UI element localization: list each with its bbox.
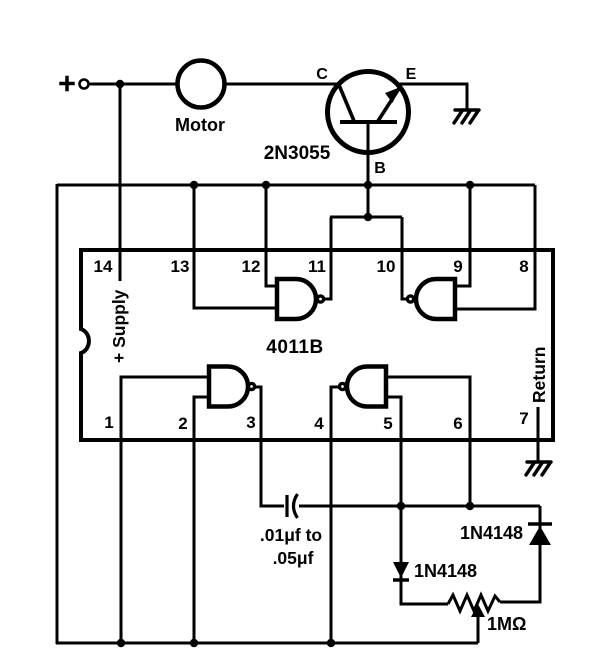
svg-text:4: 4 [314,414,324,433]
svg-text:11: 11 [308,257,326,276]
svg-text:1N4148: 1N4148 [414,561,477,581]
junction pin6 node [466,502,474,510]
terminal open circle [80,80,89,89]
junction pin13 bus [190,181,198,189]
svg-text:2N3055: 2N3055 [264,143,331,164]
wire pin 4 [331,387,339,643]
wire pin 12 [266,185,277,286]
transistor Q1 2N3055 [328,72,409,153]
wire B crossbar [330,216,402,219]
diode D1 1N4148 (left, pointing down) [393,562,409,580]
junction supply tap [116,80,124,88]
IC U1 4011B body [81,250,553,440]
svg-text:9: 9 [453,257,462,276]
wire pin 10 [402,217,407,299]
wire pin 7 stub [537,407,540,462]
junction base on bus [364,181,372,189]
junction pin9 bus [466,181,474,189]
svg-text:C: C [316,66,328,83]
svg-text:.01μf to: .01μf to [260,525,322,545]
svg-text:+ Supply: + Supply [109,289,129,363]
svg-text:Motor: Motor [175,115,225,135]
svg-text:3: 3 [246,413,255,432]
svg-text:1: 1 [104,413,113,432]
svg-text:1MΩ: 1MΩ [487,614,526,634]
wire pin 6 [386,377,470,506]
svg-text:13: 13 [171,257,190,276]
diode D2 1N4148 (right, pointing up) [528,524,552,545]
wire emitter to ground [398,84,467,110]
wire wiper to bottom bus [477,616,480,643]
nand gate U1c bottom-left [209,367,255,407]
svg-text:4011B: 4011B [266,337,323,358]
wire terminal to motor [88,83,178,86]
wire pin 11 [324,217,331,299]
junction pin4 bottom [327,639,335,647]
svg-text:Return: Return [529,347,549,403]
svg-text:10: 10 [377,257,396,276]
junction pin5 node [397,502,405,510]
svg-text:14: 14 [94,257,113,276]
wire pin 5 down through diode [386,397,448,604]
wire motor to collector [224,83,340,86]
+ supply terminal [61,78,73,90]
nand gate U1b top-right [407,279,455,319]
svg-text:B: B [374,160,386,177]
wire pin 9 [455,185,470,286]
svg-text:7: 7 [519,409,528,428]
wire left rail [56,184,59,644]
svg-text:.05μf: .05μf [273,548,314,568]
svg-text:1N4148: 1N4148 [460,523,523,543]
junction pin12 bus [262,181,270,189]
svg-text:2: 2 [178,414,187,433]
svg-text:E: E [406,66,417,83]
wiper arrow [471,604,485,617]
resistor R1 1M potentiometer [448,595,500,611]
svg-text:8: 8 [519,257,528,276]
svg-text:5: 5 [383,414,392,433]
motor M1 [178,61,225,108]
wire pin 3 to capacitor [255,387,284,506]
wire right branch down [500,506,540,602]
capacitor C1 [287,494,298,518]
wire pin 1 [121,377,209,643]
wire pin 8 [455,185,535,309]
nand gate U1a top-left [277,279,324,319]
wire pin 2 [194,397,209,643]
ground top [454,110,479,123]
junction pin2 bottom [190,639,198,647]
svg-text:12: 12 [242,257,261,276]
wire top bus [57,184,535,187]
svg-text:6: 6 [453,414,462,433]
nand gate U1d bottom-right [339,367,386,407]
ground pin 7 [526,462,551,475]
junction B node [364,213,372,221]
junction pin1 bottom [117,639,125,647]
wire supply down to pin 14 [119,84,122,281]
wire pin 13 [194,185,277,308]
wire capacitor to right branch [299,505,540,508]
wire base [367,122,370,217]
wire bottom bus [56,642,478,645]
